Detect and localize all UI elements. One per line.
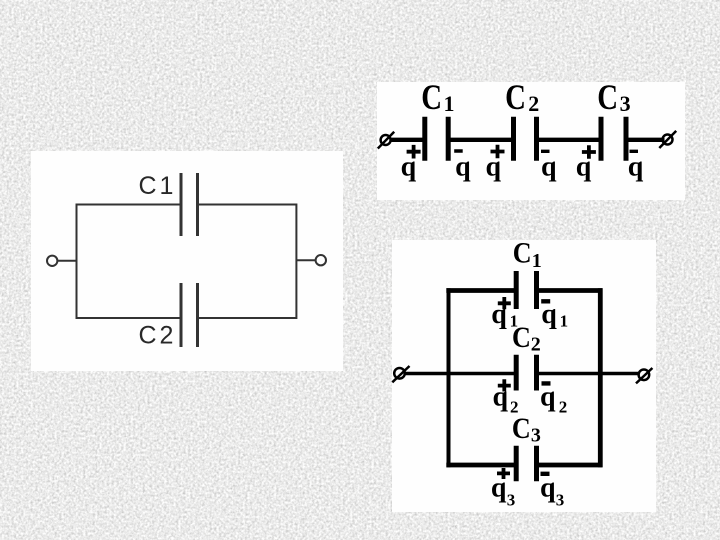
svg-text:2: 2	[531, 334, 541, 356]
svg-text:2: 2	[510, 398, 519, 417]
svg-text:C: C	[505, 78, 526, 118]
svg-text:1: 1	[532, 250, 542, 272]
svg-text:q: q	[486, 152, 502, 183]
svg-text:3: 3	[507, 491, 516, 510]
svg-text:C1: C1	[139, 172, 177, 200]
svg-text:1: 1	[560, 312, 569, 331]
svg-text:C: C	[597, 78, 618, 118]
svg-text:q: q	[541, 152, 557, 183]
svg-text:1: 1	[444, 91, 455, 116]
svg-text:q: q	[541, 299, 557, 330]
svg-text:q: q	[576, 152, 592, 183]
svg-text:3: 3	[620, 91, 631, 116]
svg-text:q: q	[455, 152, 471, 183]
svg-text:q: q	[491, 473, 507, 504]
svg-text:1: 1	[510, 312, 518, 331]
svg-text:2: 2	[528, 91, 539, 116]
svg-text:q: q	[401, 152, 417, 183]
svg-text:q: q	[540, 473, 556, 504]
svg-text:3: 3	[556, 491, 565, 510]
svg-text:C: C	[513, 237, 532, 270]
svg-text:C: C	[512, 412, 531, 445]
svg-text:2: 2	[559, 398, 568, 417]
svg-text:q: q	[628, 152, 644, 183]
svg-text:q: q	[493, 382, 509, 413]
svg-text:C2: C2	[139, 321, 177, 349]
svg-text:q: q	[540, 382, 556, 413]
svg-text:q: q	[491, 299, 507, 330]
svg-text:C: C	[421, 78, 442, 118]
svg-text:3: 3	[531, 424, 541, 446]
